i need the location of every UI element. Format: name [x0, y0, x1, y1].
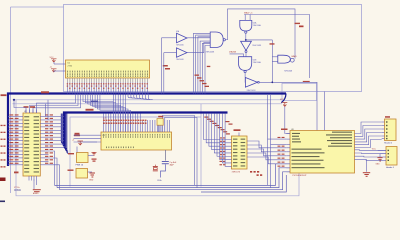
sheet border left	[11, 7, 65, 193]
IC U9 latch body	[23, 111, 40, 176]
svg-text:GND: GND	[89, 180, 94, 182]
wire buffer U5B input from bus A	[164, 53, 177, 94]
svg-text:Cry Ball: Cry Ball	[170, 161, 177, 164]
svg-text:GND: GND	[376, 163, 381, 165]
svg-text:74HC4068: 74HC4068	[206, 52, 215, 54]
IC U9 left pins with bus wires	[8, 114, 23, 164]
svg-text:Header 4: Header 4	[386, 166, 394, 169]
svg-text:74HC00A: 74HC00A	[253, 61, 262, 64]
connector P2 header4	[383, 147, 397, 169]
wire buffer U5B output to U6	[187, 43, 210, 53]
svg-text:74HC08A: 74HC08A	[284, 70, 293, 73]
IC U2 8255 body	[101, 132, 172, 150]
power flag VCC at J2	[92, 153, 97, 162]
capacitor C1 at U2 XTAL	[162, 150, 177, 167]
connector J2 power	[68, 147, 94, 167]
wires IC U2 right pins to sheet D edge	[162, 116, 197, 188]
wires IC U9 right pins to sheet C lines	[46, 100, 49, 120]
IC U2 pin labels	[103, 118, 146, 124]
inverter U7A (down)	[241, 41, 262, 52]
power VCC at P2	[372, 148, 386, 150]
bus A (address bus) horizontal with left drop	[8, 94, 286, 167]
sheet port marks bottom left	[0, 178, 6, 203]
IC U8 PIC16F628 body	[290, 129, 355, 177]
hierarchical block B outline	[64, 5, 362, 92]
svg-text:74HC4050: 74HC4050	[176, 44, 184, 46]
power VCC above IC U8	[280, 99, 290, 134]
net label on vertical net	[295, 23, 301, 24]
IC U9 top pins	[13, 99, 37, 113]
svg-text:B/A07 +5: B/A07 +5	[244, 12, 253, 15]
net label +5 on bus B	[86, 109, 94, 111]
svg-text:+5: +5	[72, 140, 74, 142]
IC U2 top pins	[104, 114, 170, 133]
svg-text:Header 5: Header 5	[384, 142, 392, 145]
net label D/A09A	[229, 51, 237, 54]
net label B/A07	[244, 12, 253, 15]
svg-text:PWR 1b: PWR 1b	[76, 165, 84, 167]
wires long verticals bus A to bottom runs via U8 taps	[268, 95, 287, 188]
svg-text:XT1 b: XT1 b	[14, 187, 20, 189]
ground at P2	[376, 154, 387, 166]
IC U8 left pins	[278, 129, 291, 172]
wire C1 to RC node	[158, 164, 166, 182]
wire buffer U5A output to U6	[187, 37, 210, 39]
svg-text:74HC00A: 74HC00A	[253, 24, 262, 27]
net label left of U9 bottom	[14, 172, 19, 174]
IC U9 bottom pins	[29, 176, 37, 189]
IC U9 right pins	[40, 114, 64, 164]
IC U3 right pins to IC U8	[247, 141, 286, 164]
wire U7B output to IC U8 pin	[259, 82, 317, 130]
net marks below IC U3	[250, 171, 262, 176]
inverter U7B 74HC04 (right)	[245, 78, 259, 92]
bus B (data bus) corner	[61, 113, 227, 154]
crystal X1 symbol	[153, 165, 158, 172]
IC U1 pin labels	[67, 83, 148, 89]
svg-text:VCC: VCC	[50, 57, 55, 59]
net labels at staircase tail	[226, 121, 233, 125]
net label below bus A	[91, 101, 98, 102]
wire U4A out to U7A and AND chain	[245, 33, 272, 41]
ground at IC U8	[363, 159, 370, 176]
IC U3 driver body	[232, 136, 248, 174]
wire into IC U8 top pin 2	[324, 92, 326, 131]
IC U8 right pins to connector P2	[355, 150, 384, 161]
wire net B/A07 to NAND inputs	[244, 15, 309, 79]
IC U3 top pin	[234, 129, 241, 136]
wire U7A to U4B	[230, 53, 247, 57]
svg-text:74HC4050: 74HC4050	[176, 59, 184, 61]
wire U4B out to U7B	[244, 73, 246, 83]
capacitor C7 below U9	[33, 189, 41, 195]
power VCC arrow 1	[50, 57, 66, 64]
hierarchical block C top edge	[13, 100, 283, 104]
connector P1 header5	[382, 116, 396, 144]
wires from IC U2 up through bus B to bus A	[113, 95, 125, 114]
wires from bus A down to IC U2 (right cascade)	[83, 94, 130, 133]
nand U6 74HC4068 8-input	[206, 32, 226, 54]
wire vertical tap for U3A inputs	[270, 40, 278, 83]
ground at J3	[89, 173, 95, 182]
component Y2 socket above U2 right	[157, 116, 163, 132]
wire bottom run 4	[201, 175, 286, 192]
buffer U5A 74HC4050	[176, 30, 187, 46]
bus A right-side branch hooks	[128, 94, 153, 100]
hierarchical block C right edge	[200, 104, 202, 187]
svg-text:COM4: COM4	[14, 190, 21, 192]
connector J3 power	[68, 169, 93, 179]
svg-text:74HC14D3: 74HC14D3	[247, 90, 256, 92]
svg-text:74HC573: 74HC573	[232, 172, 241, 174]
wires IC U9 right to bottom runs	[49, 151, 60, 190]
IC U8 right pins to connector P1	[355, 122, 382, 148]
nand U3A 74HC08 (right)	[278, 55, 297, 72]
power flag +5 feeding U10	[72, 135, 97, 146]
bus B entries to IC U3 left pins	[204, 114, 232, 167]
svg-text:PIC16F628-IP: PIC16F628-IP	[293, 175, 307, 177]
wires from bus A down to IC U10 (left fan)	[30, 94, 81, 114]
IC U2 left pins	[74, 133, 102, 142]
hierarchical block D outline	[70, 117, 201, 187]
svg-text:AGND: AGND	[33, 192, 39, 195]
net label A8 on bus A	[41, 91, 49, 93]
IC U1 2732 EPROM body	[66, 60, 150, 78]
nand U4A 74HC00 (down)	[240, 20, 262, 33]
svg-text:VCC: VCC	[372, 148, 377, 150]
wire bottom run 3	[60, 172, 291, 190]
net label top right	[299, 26, 304, 28]
hierarchical block C left edge and bottom	[16, 100, 299, 196]
left edge net labels	[1, 94, 7, 167]
svg-text:D/A09A: D/A09A	[229, 51, 237, 54]
svg-text:74HC14D3: 74HC14D3	[252, 45, 261, 47]
nand U4B 74HC00 (down)	[239, 57, 262, 73]
wire bottom run 2	[57, 168, 290, 188]
net label XT1 and COM below U9	[14, 187, 21, 192]
buffer U5B 74HC4050	[176, 48, 187, 61]
svg-text:B/A05: B/A05	[292, 55, 297, 58]
wire U6 output via top route to U3A output node	[225, 9, 295, 59]
IC U1 bottom pins and wires to bus A	[68, 78, 148, 94]
wire buffer U5A input from bus A	[162, 38, 177, 94]
power VCC arrow 2	[50, 67, 66, 73]
wire bottom run 1	[55, 164, 291, 186]
hierarchical block E outline	[282, 81, 317, 101]
wires U6 inputs from bus A	[194, 33, 211, 93]
